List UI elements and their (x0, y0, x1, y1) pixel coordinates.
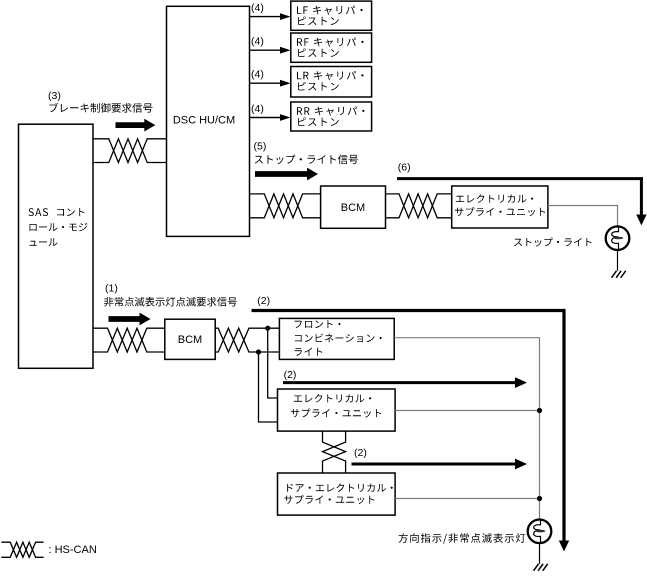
wire door unit to lamp bus (395, 498, 539, 500)
label stop light (514, 238, 592, 247)
label brake control request signal (49, 103, 152, 113)
wire stop light to ground (617, 250, 619, 271)
text RF caliper line2 (298, 48, 339, 57)
text LF caliper line2 (298, 17, 339, 26)
text front combination line1 (295, 320, 341, 328)
lamp turn/hazard indicator (528, 520, 552, 544)
wire indicator to ground (539, 543, 541, 564)
box LF caliper piston (291, 1, 372, 30)
twisted pair HS-CAN SAS to DSC (93, 139, 167, 163)
text SAS line3 (30, 238, 58, 246)
wire branch to electrical supply unit 2 upper (268, 328, 278, 398)
twisted pair HS-CAN BCM1 to electrical supply unit 1 (386, 194, 452, 218)
text electrical supply unit1 line1 (456, 194, 533, 203)
text LR caliper line1 (297, 71, 364, 80)
twisted pair HS-CAN DSC to BCM1 (250, 194, 321, 218)
arrowhead caliper 3 (280, 80, 291, 87)
box DSC HU/CM (167, 6, 250, 236)
svg-text:BCM: BCM (341, 202, 365, 214)
wire branch to electrical supply unit 2 lower (259, 352, 278, 422)
wire electrical supply unit 1 to stop light (548, 206, 618, 227)
arrow wire (2) to door unit (352, 463, 517, 466)
text RF caliper line1 (297, 38, 364, 47)
arrowhead caliper 1 (280, 13, 291, 20)
text SAS line1b (57, 208, 84, 216)
box RR caliper piston (291, 102, 372, 131)
box door electrical supply unit (278, 473, 396, 515)
lamp stop light (606, 226, 630, 250)
svg-text:(3): (3) (48, 90, 61, 102)
text electrical supply unit1 line2 (455, 207, 545, 216)
wire DSC to caliper 4 (250, 117, 281, 119)
label turn/hazard indicator light (398, 533, 525, 544)
svg-text:(4): (4) (251, 69, 264, 81)
svg-text:(2): (2) (284, 369, 297, 381)
arrowhead caliper 2 (280, 47, 291, 54)
junction dot lower CAN (256, 349, 261, 354)
svg-text:(4): (4) (251, 36, 264, 48)
text electrical supply unit2 line1 (294, 394, 371, 403)
box RF caliper piston (291, 33, 372, 62)
wire DSC to caliper 2 (250, 49, 281, 51)
text SAS line2 (29, 223, 87, 231)
wire front combination light to lamp bus (394, 338, 539, 519)
box BCM 2 (165, 319, 215, 359)
text RR caliper line1 (297, 107, 364, 116)
arrow wire (2) to electrical supply unit 2 (283, 381, 516, 384)
label stop light signal (255, 155, 358, 165)
text front combination line3 (295, 348, 323, 356)
arrow wire (2) hazard power main (252, 309, 565, 542)
arrow wire (6) stop light power (397, 177, 643, 215)
text door unit line2 (284, 495, 374, 504)
twisted pair HS-CAN SAS to BCM2 (93, 328, 165, 352)
svg-text:(4): (4) (251, 103, 264, 115)
svg-text:(4): (4) (251, 2, 264, 14)
junction dot upper CAN (265, 326, 270, 331)
text RR caliper line2 (298, 117, 339, 126)
text electrical supply unit2 line2 (291, 409, 381, 418)
box electrical supply unit 2 (278, 389, 396, 431)
svg-text:(5): (5) (254, 140, 267, 152)
arrow brake control request signal (116, 119, 156, 132)
box BCM 1 (321, 186, 386, 228)
arrow stop light signal (255, 168, 318, 181)
box SAS control module (19, 124, 94, 368)
label hazard flash request signal (104, 297, 237, 307)
svg-text:: HS-CAN: : HS-CAN (49, 544, 97, 556)
arrow hazard flash request signal (109, 313, 151, 326)
svg-text:(2): (2) (257, 295, 270, 307)
svg-text:DSC HU/CM: DSC HU/CM (173, 115, 235, 127)
junction dot lamp bus 1 (537, 408, 542, 413)
wire DSC to caliper 1 (250, 16, 281, 18)
twisted pair electrical supply unit 2 to door unit (323, 431, 346, 473)
ground stop light (612, 271, 626, 278)
text LF caliper line1 (297, 6, 363, 15)
svg-text:(2): (2) (354, 447, 367, 459)
wire electrical supply unit 2 to lamp bus (395, 410, 539, 412)
svg-text:(1): (1) (105, 282, 118, 294)
twisted pair HS-CAN BCM2 to front combination light (215, 328, 279, 352)
text front combination line2 (295, 334, 382, 343)
arrowhead caliper 4 (280, 114, 291, 121)
box electrical supply unit 1 (452, 186, 548, 228)
text LR caliper line2 (298, 82, 339, 91)
svg-text:(6): (6) (398, 162, 411, 174)
svg-text:BCM: BCM (178, 334, 202, 346)
box front combination light (279, 318, 394, 359)
wire DSC to caliper 3 (250, 82, 281, 84)
text door unit line1 (287, 483, 393, 492)
box LR caliper piston (291, 67, 372, 98)
junction dot lamp bus 2 (537, 496, 542, 501)
legend HS-CAN twisted pair symbol (1, 542, 43, 557)
ground turn/hazard indicator (534, 564, 548, 571)
text SAS line1a (29, 208, 49, 216)
